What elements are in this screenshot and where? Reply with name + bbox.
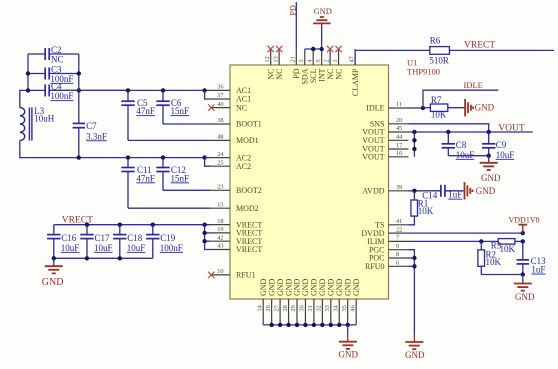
svg-text:18: 18 xyxy=(217,218,223,225)
svg-text:10uF: 10uF xyxy=(127,243,146,253)
svg-text:NC: NC xyxy=(51,54,64,64)
svg-text:GND: GND xyxy=(476,186,496,196)
svg-text:GND: GND xyxy=(339,350,359,360)
svg-text:30: 30 xyxy=(299,305,306,311)
svg-text:17: 17 xyxy=(396,142,402,149)
svg-text:38: 38 xyxy=(217,117,223,124)
svg-text:31: 31 xyxy=(307,305,314,311)
svg-text:7: 7 xyxy=(396,235,399,242)
svg-text:C18: C18 xyxy=(127,233,143,243)
svg-text:39: 39 xyxy=(396,184,402,191)
svg-text:9: 9 xyxy=(396,243,399,250)
svg-text:C9: C9 xyxy=(496,140,507,150)
svg-text:10uF: 10uF xyxy=(456,150,475,160)
svg-text:47: 47 xyxy=(348,56,355,62)
svg-text:48: 48 xyxy=(217,134,223,141)
svg-text:RFU1: RFU1 xyxy=(236,271,256,280)
svg-text:BOOT2: BOOT2 xyxy=(236,186,262,195)
svg-text:5: 5 xyxy=(315,59,322,62)
svg-text:22: 22 xyxy=(396,226,402,233)
svg-text:27: 27 xyxy=(273,305,280,311)
svg-text:10: 10 xyxy=(217,268,223,275)
svg-text:THP9100: THP9100 xyxy=(407,67,440,77)
svg-text:R6: R6 xyxy=(430,35,441,45)
svg-text:VRECT: VRECT xyxy=(236,245,262,254)
svg-text:GND: GND xyxy=(405,350,425,360)
svg-text:13: 13 xyxy=(272,56,279,62)
svg-text:C19: C19 xyxy=(160,233,176,243)
svg-text:AVDD: AVDD xyxy=(362,187,384,196)
svg-text:20: 20 xyxy=(396,117,402,124)
svg-text:NC: NC xyxy=(275,69,284,80)
svg-text:GND: GND xyxy=(352,278,361,296)
svg-text:2: 2 xyxy=(323,59,330,62)
svg-text:10K: 10K xyxy=(486,257,502,267)
svg-text:36: 36 xyxy=(217,84,223,91)
svg-text:37: 37 xyxy=(217,92,223,99)
svg-text:AC2: AC2 xyxy=(236,162,251,171)
svg-text:12: 12 xyxy=(264,56,271,62)
svg-text:19: 19 xyxy=(217,226,223,233)
svg-text:14: 14 xyxy=(256,304,263,311)
svg-text:C17: C17 xyxy=(95,233,111,243)
svg-text:100nF: 100nF xyxy=(50,91,73,101)
svg-text:GND: GND xyxy=(515,292,535,302)
svg-text:GND: GND xyxy=(475,103,495,113)
svg-text:15nF: 15nF xyxy=(171,106,190,116)
svg-text:28: 28 xyxy=(282,305,289,311)
svg-text:10uF: 10uF xyxy=(94,243,113,253)
svg-text:BOOT1: BOOT1 xyxy=(236,120,262,129)
svg-text:GND: GND xyxy=(314,6,332,16)
svg-text:10uF: 10uF xyxy=(496,150,515,160)
svg-text:GND: GND xyxy=(481,173,501,183)
svg-text:10uH: 10uH xyxy=(34,113,55,123)
svg-text:NC: NC xyxy=(334,69,343,80)
svg-text:8: 8 xyxy=(396,251,399,258)
svg-text:40: 40 xyxy=(217,101,223,108)
svg-text:24: 24 xyxy=(217,151,224,158)
svg-text:VDD1V8: VDD1V8 xyxy=(509,216,540,225)
svg-text:NC: NC xyxy=(236,103,247,112)
svg-text:47nF: 47nF xyxy=(136,106,155,116)
svg-text:44: 44 xyxy=(396,134,403,141)
svg-text:1uF: 1uF xyxy=(531,265,545,275)
svg-text:R7: R7 xyxy=(431,95,442,105)
svg-text:10K: 10K xyxy=(431,110,447,120)
svg-text:VOUT: VOUT xyxy=(498,124,525,134)
svg-text:29: 29 xyxy=(290,305,297,311)
svg-text:100nF: 100nF xyxy=(160,243,183,253)
svg-text:26: 26 xyxy=(265,305,272,311)
svg-text:21: 21 xyxy=(290,56,297,62)
svg-text:IDLE: IDLE xyxy=(366,104,384,113)
svg-text:35: 35 xyxy=(341,305,348,311)
svg-text:510R: 510R xyxy=(429,56,449,66)
svg-text:46: 46 xyxy=(349,305,356,311)
svg-text:IDLE: IDLE xyxy=(464,80,483,90)
svg-text:23: 23 xyxy=(217,184,223,191)
svg-text:45: 45 xyxy=(396,125,402,132)
svg-text:MOD2: MOD2 xyxy=(236,204,259,213)
svg-text:MOD1: MOD1 xyxy=(236,136,259,145)
svg-text:VRECT: VRECT xyxy=(464,40,495,50)
svg-text:PD: PD xyxy=(288,5,297,15)
svg-text:10K: 10K xyxy=(418,206,434,216)
svg-text:33: 33 xyxy=(324,305,331,311)
svg-text:6: 6 xyxy=(396,260,399,267)
svg-text:1: 1 xyxy=(332,59,339,62)
svg-text:41: 41 xyxy=(396,218,402,225)
svg-text:1uF: 1uF xyxy=(448,190,462,200)
svg-text:16: 16 xyxy=(396,150,402,157)
svg-text:VOUT: VOUT xyxy=(362,136,384,145)
svg-text:13: 13 xyxy=(217,201,223,208)
svg-text:42: 42 xyxy=(217,234,223,241)
svg-text:VRECT: VRECT xyxy=(62,216,93,226)
svg-text:32: 32 xyxy=(316,305,323,311)
svg-text:C4: C4 xyxy=(51,82,62,92)
svg-text:VOUT: VOUT xyxy=(362,153,384,162)
svg-text:47nF: 47nF xyxy=(136,173,155,183)
svg-text:C8: C8 xyxy=(456,140,467,150)
svg-text:GND: GND xyxy=(42,277,64,288)
svg-text:3: 3 xyxy=(298,59,305,62)
svg-text:RFU0: RFU0 xyxy=(365,262,385,271)
svg-text:43: 43 xyxy=(217,243,223,250)
svg-text:34: 34 xyxy=(332,304,339,311)
svg-text:15nF: 15nF xyxy=(171,173,190,183)
svg-text:10uF: 10uF xyxy=(61,243,80,253)
svg-text:25: 25 xyxy=(217,159,223,166)
svg-text:10K: 10K xyxy=(500,244,516,254)
svg-text:11: 11 xyxy=(396,101,402,108)
svg-text:C16: C16 xyxy=(61,233,77,243)
svg-text:CLAMP: CLAMP xyxy=(351,68,360,96)
svg-text:3.3nF: 3.3nF xyxy=(86,131,107,141)
svg-text:C7: C7 xyxy=(86,121,97,131)
